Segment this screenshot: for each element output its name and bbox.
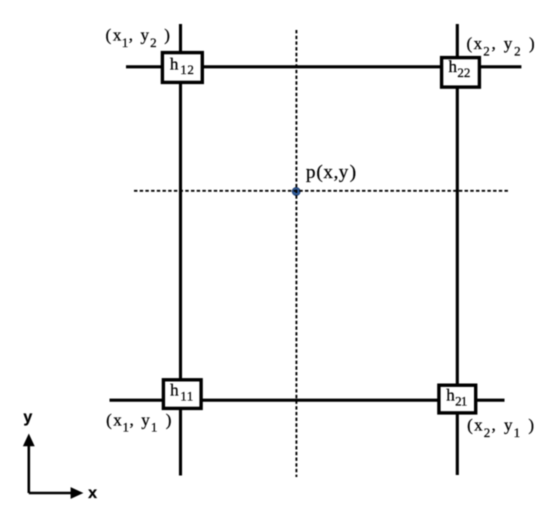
node p: blue point [292,188,300,196]
node h22: box [442,58,480,88]
svg-text:x: x [88,485,97,502]
wire: bottom horizontal grid line at y1 [110,399,505,402]
node h11: box [163,380,201,409]
axis y arrow [27,445,30,493]
wire: top horizontal grid line at y2 [126,65,521,68]
wire: dashed horizontal line through p [134,190,509,192]
wire: left vertical grid line at x1 [179,24,182,476]
wire: right vertical grid line at x2 [456,24,459,475]
node h12: box [162,53,202,83]
svg-text:y: y [23,409,32,426]
node h21: box [439,385,476,413]
axis x arrow [29,492,72,495]
wire: dashed vertical line through p [295,30,297,477]
